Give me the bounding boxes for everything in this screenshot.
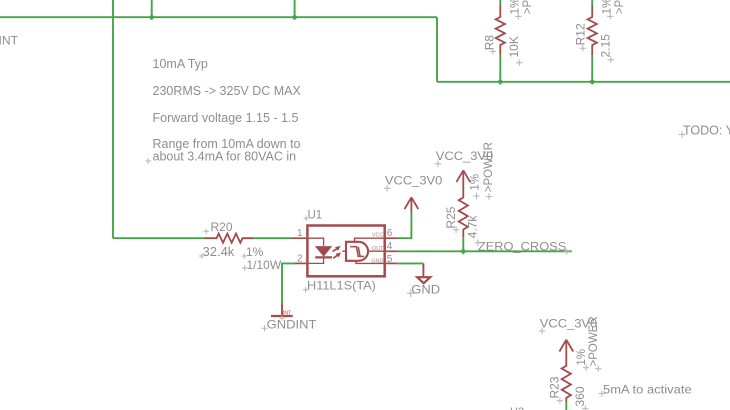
label R25 attribute POWER bbox=[483, 142, 495, 200]
label TODO note bbox=[683, 123, 730, 137]
power VCC_3V0 arrow above R23 bbox=[559, 340, 573, 355]
junction bbox=[497, 79, 503, 85]
label R8 tolerance 1% bbox=[510, 0, 522, 20]
power VCC_3V0 arrow above R25 bbox=[456, 170, 470, 186]
wire top AC bus horizontal bbox=[0, 16, 437, 18]
svg-text:360: 360 bbox=[573, 386, 587, 406]
label R25 tolerance 1% bbox=[470, 174, 482, 199]
U1 hysteresis symbol bbox=[350, 247, 364, 257]
svg-text:32.4k: 32.4k bbox=[203, 244, 235, 259]
label R23 tolerance 1% bbox=[576, 349, 590, 371]
svg-text:about 3.4mA for 80VAC in: about 3.4mA for 80VAC in bbox=[153, 150, 297, 164]
svg-text:INT: INT bbox=[283, 310, 292, 316]
wire left vertical to R20 bbox=[112, 0, 114, 238]
label 5mA note bbox=[603, 382, 692, 396]
svg-text:>POWER: >POWER bbox=[522, 0, 534, 14]
wire pin4 ZERO_CROSS net bbox=[397, 250, 572, 252]
U1 LED cathode bar bbox=[315, 256, 332, 258]
U1 internal LED anode/cathode wiring bbox=[309, 238, 324, 263]
resistor R25 bbox=[459, 186, 468, 237]
power VCC_3V0 arrow bbox=[405, 197, 419, 212]
label R8 attribute POWER bbox=[522, 0, 534, 14]
label R12 tolerance 1% bbox=[602, 0, 614, 20]
label R8 value 10K bbox=[507, 36, 523, 66]
wire stub up 1 bbox=[151, 0, 153, 17]
label U1 pin number 4 bbox=[387, 241, 393, 252]
svg-text:>POWER: >POWER bbox=[588, 316, 600, 366]
U1 LED triangle bbox=[315, 246, 332, 257]
wire top bus vertical drop bbox=[436, 17, 438, 82]
svg-text:>POWER: >POWER bbox=[483, 142, 495, 192]
svg-text:5: 5 bbox=[387, 254, 393, 265]
resistor R23 bbox=[562, 355, 571, 402]
label U1 pin name GND bbox=[371, 258, 383, 264]
label INT (clipped net name) bbox=[0, 33, 18, 47]
wire R8 bottom bbox=[499, 56, 501, 82]
U1 pin 6 stub bbox=[386, 237, 397, 239]
ZERO_CROSS origin cross bbox=[564, 249, 570, 255]
note origin cross bbox=[145, 158, 151, 164]
svg-text:OUT: OUT bbox=[372, 246, 384, 252]
U1 box outline bbox=[307, 226, 384, 277]
label R20 name bbox=[211, 220, 233, 234]
wire R12 top stub bbox=[591, 0, 593, 6]
VCC_3V0 bottom origin cross bbox=[539, 328, 545, 334]
svg-text:1/10W: 1/10W bbox=[247, 258, 282, 272]
svg-text:>POWER: >POWER bbox=[614, 0, 626, 14]
label R12 value 2.15 bbox=[599, 34, 615, 63]
wire R20 to pin1 bbox=[254, 237, 292, 239]
label U1 value H11L1S(TA) bbox=[307, 279, 376, 293]
label ZERO_CROSS bbox=[478, 240, 566, 254]
label R12 attribute POWER bbox=[614, 0, 626, 14]
label R25 value 4.7k bbox=[466, 215, 482, 246]
ground GND bbox=[417, 263, 430, 283]
svg-text:R8: R8 bbox=[483, 35, 497, 51]
5mA origin cross bbox=[599, 390, 605, 396]
junction bbox=[460, 248, 466, 254]
svg-text:R23: R23 bbox=[548, 376, 562, 398]
label VCC_3V0 bbox=[385, 174, 443, 188]
label U1 pin number 2 bbox=[297, 254, 303, 265]
VCC_3V0 upper origin cross bbox=[435, 161, 441, 167]
svg-text:VCC: VCC bbox=[372, 232, 384, 238]
label R8 name bbox=[483, 35, 497, 55]
svg-text:2: 2 bbox=[297, 254, 303, 265]
wire R12 bottom bbox=[591, 56, 593, 82]
wire lower bus horizontal bbox=[437, 81, 730, 83]
wire pin2 to GNDINT bbox=[282, 263, 295, 303]
U1 light arrow lower bbox=[333, 255, 338, 258]
label R20 value 32.4k bbox=[203, 244, 235, 259]
GND origin cross bbox=[407, 289, 415, 297]
U1 detector D shape bbox=[346, 242, 368, 261]
R20 1% origin cross bbox=[242, 253, 247, 258]
note text block bbox=[153, 57, 302, 164]
svg-text:4: 4 bbox=[387, 241, 393, 252]
svg-text:ZERO_CROSS: ZERO_CROSS bbox=[478, 240, 566, 254]
svg-text:1%: 1% bbox=[602, 0, 614, 14]
label R23 attribute POWER bbox=[588, 316, 602, 372]
svg-text:2.15: 2.15 bbox=[599, 34, 613, 58]
label R12 name bbox=[573, 23, 587, 51]
U1 name origin cross bbox=[304, 216, 309, 221]
svg-text:10mA Typ: 10mA Typ bbox=[153, 57, 208, 71]
label U1 pin number 6 bbox=[387, 228, 393, 239]
svg-text:4.7k: 4.7k bbox=[466, 215, 480, 239]
wire R23 bottom bbox=[565, 402, 567, 410]
label R23 value 360 bbox=[573, 386, 589, 410]
U1 internal GND line bbox=[356, 261, 385, 264]
label R25 name bbox=[444, 206, 460, 233]
label U1 name bbox=[308, 209, 323, 221]
svg-text:R12: R12 bbox=[573, 23, 587, 45]
label GNDINT bbox=[267, 317, 317, 331]
TODO origin cross bbox=[679, 131, 685, 137]
label VCC_3V0 upper bbox=[436, 149, 494, 163]
svg-text:R20: R20 bbox=[211, 220, 233, 234]
U1 detector input stub bbox=[342, 250, 346, 252]
U1 pin 4 stub bbox=[386, 250, 397, 252]
label R23 name bbox=[548, 376, 564, 404]
label GND bbox=[411, 282, 440, 296]
GNDINT origin cross bbox=[262, 325, 268, 331]
svg-text:10K: 10K bbox=[507, 36, 521, 57]
label R20 power 1/10W bbox=[247, 258, 282, 272]
svg-text:GNDINT: GNDINT bbox=[267, 317, 317, 331]
resistor R8 bbox=[496, 5, 505, 56]
svg-text:230RMS -> 325V DC MAX: 230RMS -> 325V DC MAX bbox=[153, 84, 302, 98]
label U3 clipped bbox=[510, 406, 524, 410]
svg-text:INT: INT bbox=[0, 33, 18, 47]
svg-text:TODO: Y: TODO: Y bbox=[683, 123, 730, 137]
label U1 pin number 5 bbox=[387, 254, 393, 265]
U1 pin 5 stub bbox=[386, 262, 397, 264]
svg-text:VCC_3V0: VCC_3V0 bbox=[385, 174, 443, 188]
optocoupler U1 H11L1S bbox=[291, 226, 397, 277]
label R20 tolerance 1% bbox=[246, 245, 264, 259]
U1 pin 1 stub bbox=[291, 237, 306, 239]
U1 internal OUT line bbox=[368, 250, 384, 252]
U1 pin 2 stub bbox=[295, 262, 306, 264]
wire R8 top stub bbox=[499, 0, 501, 6]
svg-text:U1: U1 bbox=[308, 209, 323, 221]
svg-text:U3: U3 bbox=[510, 406, 524, 410]
wire R25 bottom bbox=[462, 237, 464, 251]
label U1 pin number 1 bbox=[297, 228, 303, 239]
svg-text:6: 6 bbox=[387, 228, 393, 239]
svg-text:Forward voltage 1.15 - 1.5: Forward voltage 1.15 - 1.5 bbox=[153, 111, 299, 125]
svg-text:GND: GND bbox=[411, 282, 440, 296]
resistor R12 bbox=[588, 5, 597, 56]
ground GNDINT bbox=[271, 303, 293, 321]
svg-text:1: 1 bbox=[297, 228, 303, 239]
resistor R20 bbox=[205, 234, 254, 243]
wire stub up 2 bbox=[294, 0, 296, 17]
svg-text:H11L1S(TA): H11L1S(TA) bbox=[307, 279, 376, 293]
svg-text:R25: R25 bbox=[444, 206, 458, 228]
svg-text:1%: 1% bbox=[576, 349, 588, 366]
wire pin6 to VCC_3V0 bbox=[397, 212, 411, 238]
junction bbox=[589, 79, 595, 85]
label U1 pin name OUT bbox=[372, 246, 384, 252]
svg-text:5mA to activate: 5mA to activate bbox=[603, 382, 692, 396]
svg-text:GND: GND bbox=[371, 258, 383, 264]
U1 value origin cross bbox=[303, 287, 308, 292]
svg-text:1%: 1% bbox=[470, 174, 482, 191]
wire pin5 to GND bbox=[397, 262, 423, 264]
U1 internal VCC line bbox=[355, 238, 385, 242]
VCC_3V0 origin cross bbox=[384, 185, 390, 191]
R20 name origin cross bbox=[204, 229, 209, 234]
wire R20 left bbox=[113, 237, 206, 239]
junction bbox=[149, 14, 155, 20]
junction bbox=[292, 14, 298, 20]
label U1 pin name VCC bbox=[372, 232, 384, 238]
R20 1/10W origin cross bbox=[242, 265, 247, 270]
svg-text:1%: 1% bbox=[510, 0, 522, 14]
U1 light arrow upper bbox=[333, 248, 338, 251]
R20 value origin cross bbox=[199, 253, 204, 258]
label VCC_3V0 bottom bbox=[540, 316, 598, 330]
